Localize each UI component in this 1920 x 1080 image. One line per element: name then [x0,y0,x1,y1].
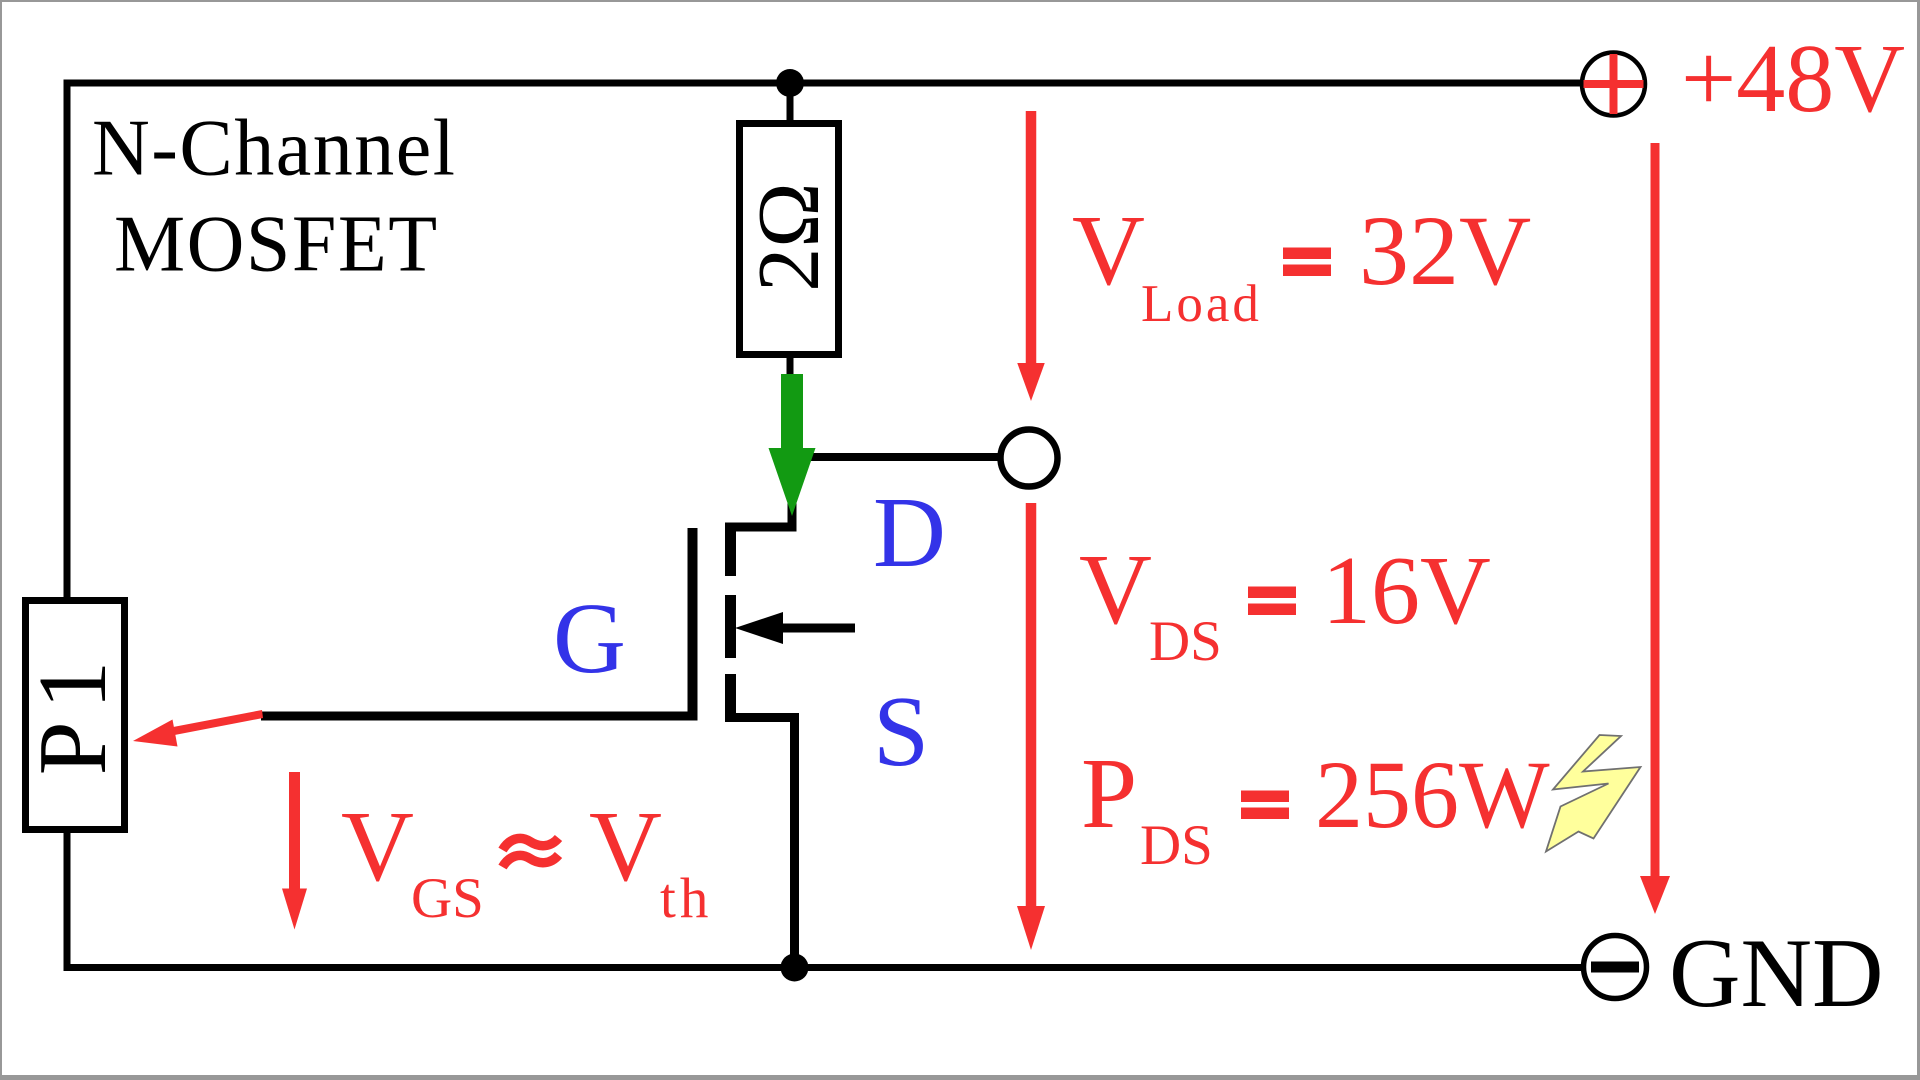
junction dot source / bottom rail [781,954,809,982]
svg-text:GS: GS [411,867,484,930]
wiper arrow (red) to P1 [171,710,264,736]
svg-text:D: D [873,476,946,588]
transistor Q1 channel dash middle [725,595,736,658]
power dissipation lightning bolt [1546,735,1641,852]
svg-text:N-Channel: N-Channel [92,105,457,193]
svg-text:V: V [589,790,662,902]
current arrow I (green) into drain [769,374,816,516]
transistor Q1 channel dash top [725,526,736,576]
+48V supply terminal symbol [1582,53,1645,116]
wire left vertical (top rail to P1 top) [64,80,71,601]
transistor Q1 channel dash bottom [725,674,736,720]
svg-text:DS: DS [1140,814,1213,877]
voltage arrow V_GS [289,772,300,889]
junction dot at top rail / resistor [776,69,804,97]
voltage arrow V_DS [1026,503,1037,906]
svg-text:V: V [1079,533,1152,645]
wire drain lead vertical [788,453,797,531]
wire gate horizontal from P1 wiper [261,712,698,721]
svg-text:2Ω: 2Ω [741,182,838,291]
svg-text:P1: P1 [19,649,126,775]
transistor Q1 body arrow [779,624,855,633]
transistor Q1 drain lead [725,523,797,532]
svg-text:+48V: +48V [1681,25,1905,133]
transistor Q1 gate bar [688,528,698,720]
wire left vertical (P1 bottom to bottom rail) [64,829,71,971]
resistor R1 body [740,124,839,355]
GND terminal symbol [1584,936,1647,999]
svg-text:256W: 256W [1315,741,1550,848]
frame border right [1917,0,1920,1080]
frame border left [0,0,2,1080]
transistor Q1 source lead [725,713,799,722]
svg-text:16V: 16V [1322,537,1491,645]
svg-text:S: S [873,675,929,787]
frame border bottom [0,1075,1920,1080]
svg-text:Load: Load [1141,275,1262,333]
svg-text:GND: GND [1669,919,1883,1028]
wire stub top rail to resistor [787,90,794,121]
wire top bus +48V rail [64,80,1582,87]
wire stub resistor bottom [787,358,794,380]
voltage arrow V_Load [1026,111,1037,363]
svg-text:V: V [1072,194,1145,306]
svg-text:32V: 32V [1359,195,1531,306]
svg-text:MOSFET: MOSFET [114,201,439,289]
wire drain node horizontal [792,453,998,461]
svg-text:DS: DS [1149,610,1222,673]
frame border top [0,0,1920,2]
node open-circle terminal [1001,430,1058,487]
voltage arrow +48V to GND [1651,143,1660,876]
svg-text:P: P [1081,737,1137,849]
wire bottom bus GND rail [64,964,1584,971]
wire source vertical to bottom rail [790,713,799,967]
svg-text:th: th [660,867,712,930]
svg-text:V: V [341,790,414,902]
svg-text:G: G [553,582,626,694]
potentiometer P1 body [26,601,125,830]
